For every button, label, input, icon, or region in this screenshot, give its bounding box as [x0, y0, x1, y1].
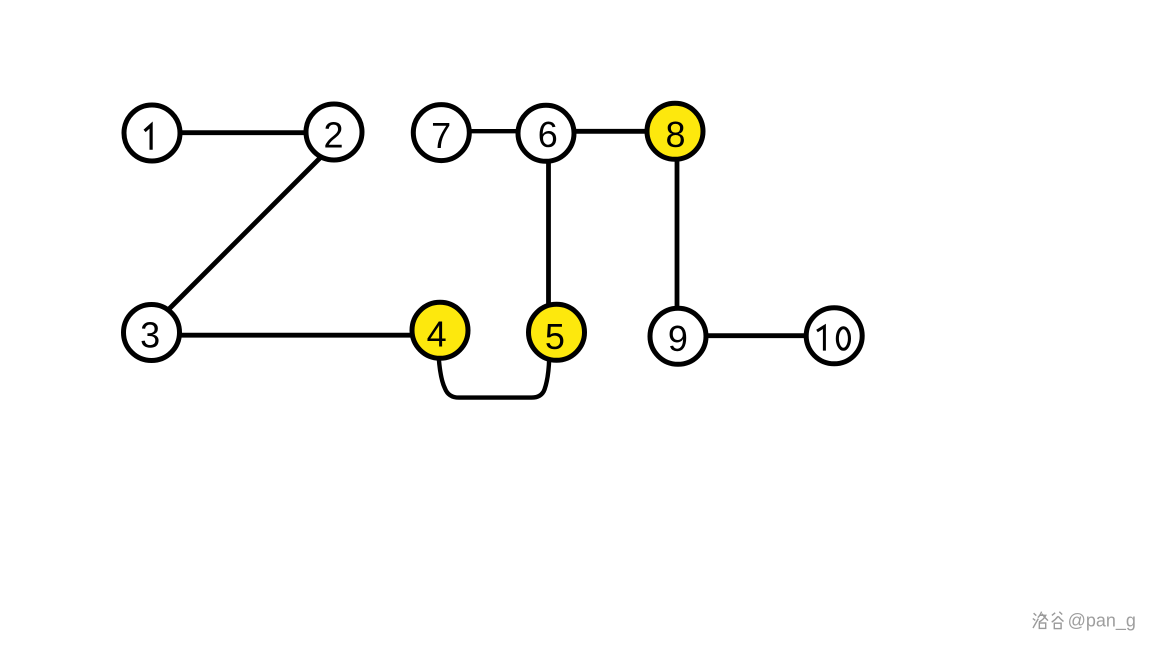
wire 6-8	[546, 129, 675, 134]
node 10	[806, 308, 862, 364]
svg-text:2: 2	[323, 114, 343, 155]
node 7	[413, 105, 469, 161]
watermark 洛谷@pan_g	[1033, 612, 1064, 629]
svg-text:3: 3	[140, 315, 160, 356]
node 5 (yellow)	[529, 304, 585, 360]
glyph 洛 (water radical)	[1033, 613, 1039, 628]
wire 9-10	[678, 333, 834, 338]
svg-text:7: 7	[431, 115, 451, 156]
wire 3-4	[152, 333, 441, 338]
svg-text:9: 9	[668, 318, 688, 359]
wire 6-5	[546, 133, 551, 332]
node 9	[650, 308, 706, 364]
node 4 (yellow)	[412, 302, 468, 358]
svg-text:5: 5	[545, 316, 565, 357]
wire 7-6	[441, 129, 546, 133]
node 3	[124, 305, 180, 361]
wire 1-2	[152, 130, 334, 135]
svg-text:4: 4	[427, 314, 447, 355]
wire 8-9	[675, 131, 680, 336]
node 2	[306, 104, 362, 160]
svg-text:@pan_g: @pan_g	[1068, 611, 1136, 632]
glyph 谷	[1052, 612, 1064, 622]
node 1	[124, 105, 180, 161]
svg-text:6: 6	[538, 114, 558, 155]
node 8 (yellow)	[647, 103, 703, 159]
wire 2-3	[164, 153, 325, 314]
glyph 洛 (right part 各)	[1038, 612, 1048, 622]
svg-text:8: 8	[665, 114, 685, 155]
node 6	[518, 105, 574, 161]
wire 4-5 (bottom U curve)	[439, 356, 550, 398]
